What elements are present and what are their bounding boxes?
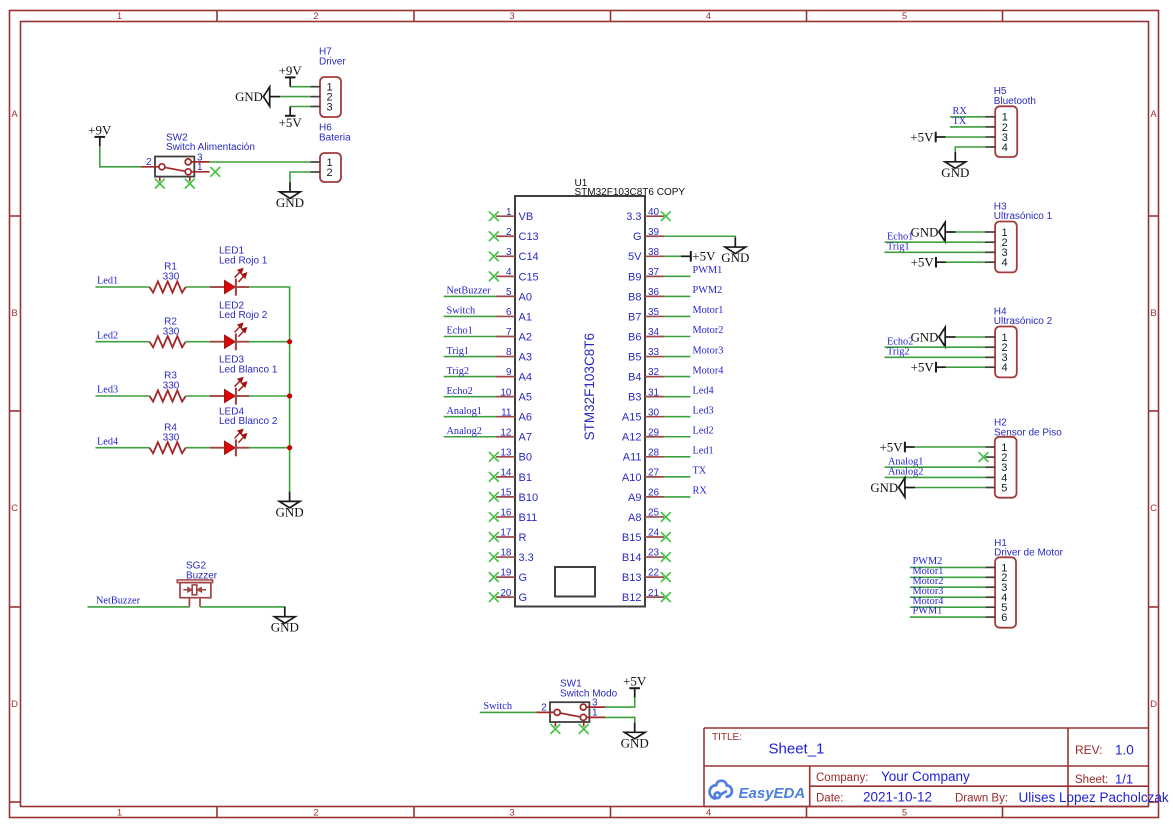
- wire Echo2 to H4 pin2: [885, 346, 986, 348]
- junction dots on LED bus: [287, 339, 292, 344]
- wire Motor3 to H1 pin4: [910, 596, 986, 598]
- wire R4 to LED4: [186, 447, 210, 449]
- wire Analog2 to H2 pin4: [885, 476, 986, 478]
- svg-text:Sheet:: Sheet:: [1075, 774, 1108, 786]
- U1 pin 27 A10: [622, 467, 664, 483]
- svg-text:+5V: +5V: [623, 674, 647, 689]
- connector H4 Ultrasónico 2: [985, 306, 1053, 377]
- svg-text:Led2: Led2: [693, 425, 714, 436]
- svg-text:Led Blanco 2: Led Blanco 2: [219, 416, 278, 427]
- connector H2 Sensor de Piso: [985, 418, 1062, 498]
- svg-text:B12: B12: [622, 592, 642, 604]
- U1 pin 9 A4: [496, 367, 532, 383]
- svg-text:GND: GND: [721, 250, 749, 265]
- wire H6 pin2 to GND: [290, 172, 311, 182]
- no-connect X U1 pin 20: [489, 592, 499, 602]
- no-connect X U1 pin 16: [489, 512, 499, 522]
- svg-text:1: 1: [117, 11, 122, 22]
- svg-text:+9V: +9V: [88, 122, 112, 137]
- svg-text:2021-10-12: 2021-10-12: [863, 790, 932, 805]
- wire Analog1 to H2 pin3: [885, 466, 986, 468]
- svg-text:3: 3: [506, 247, 512, 258]
- svg-text:A5: A5: [519, 392, 532, 404]
- wire U1 pin 27 net TX: [664, 476, 690, 478]
- wire U1 pin 31 net Led4: [664, 396, 690, 398]
- wire buzzer to GND: [200, 606, 286, 608]
- resistor R1 330: [150, 262, 186, 293]
- svg-text:5: 5: [506, 287, 512, 298]
- svg-text:NetBuzzer: NetBuzzer: [96, 595, 141, 606]
- wire H7 pin3 to +5V: [290, 106, 310, 108]
- wire R3 to LED3: [186, 395, 210, 397]
- U1 pin 40 3.3: [626, 207, 664, 223]
- wire PWM1 to H1 pin6: [910, 616, 986, 618]
- U1 pin 14 B1: [496, 467, 532, 483]
- svg-text:REV:: REV:: [1075, 743, 1103, 757]
- svg-text:Led1: Led1: [97, 276, 118, 287]
- no-connect X U1 pin 25: [661, 512, 671, 522]
- svg-text:B8: B8: [628, 291, 641, 303]
- U1 pin 35 B7: [628, 307, 664, 323]
- wire LED2 to bus: [249, 341, 290, 343]
- svg-text:Date:: Date:: [816, 793, 844, 805]
- svg-text:Ultrasónico 2: Ultrasónico 2: [994, 316, 1053, 327]
- wire Led3 to R3: [96, 395, 150, 397]
- wire U1 pin 26 net RX: [664, 496, 690, 498]
- svg-text:3.3: 3.3: [626, 211, 641, 223]
- LED LED2 Led Rojo 2: [210, 300, 268, 350]
- wire LED1 to bus: [249, 286, 290, 288]
- U1 pin 3 C14: [496, 247, 539, 263]
- wire +9V to SW2 pin2: [100, 146, 141, 167]
- svg-text:C15: C15: [519, 271, 539, 283]
- svg-text:1/1: 1/1: [1115, 772, 1133, 787]
- no-connect X U1 pin 14: [489, 472, 499, 482]
- wire Switch to SW1 pin2: [480, 711, 536, 713]
- no-connect X U1 pin 19: [489, 572, 499, 582]
- U1 pin 36 B8: [628, 287, 664, 303]
- svg-text:20: 20: [500, 588, 512, 599]
- no-connect X SW2 pin1: [210, 167, 220, 177]
- U1 pin 37 B9: [628, 267, 664, 283]
- wire NetBuzzer to buzzer: [88, 606, 190, 608]
- no-connect X U1 pin 3: [489, 251, 499, 261]
- wire U1 pin 36 net PWM2: [664, 295, 690, 297]
- svg-text:5: 5: [902, 808, 907, 819]
- svg-text:Led Rojo 1: Led Rojo 1: [219, 256, 268, 267]
- svg-text:5: 5: [902, 11, 907, 22]
- svg-text:GND: GND: [271, 620, 299, 635]
- wire U1 pin 9 net Trig2: [444, 376, 496, 378]
- svg-text:B: B: [1150, 308, 1156, 319]
- svg-text:32: 32: [648, 367, 660, 378]
- svg-text:31: 31: [648, 387, 660, 398]
- U1 pin 10 A5: [496, 387, 532, 403]
- svg-text:TITLE:: TITLE:: [712, 732, 742, 743]
- U1 pin 13 B0: [496, 447, 532, 463]
- wire U1 pin 34 net Motor2: [664, 336, 690, 338]
- connector H5 Bluetooth: [986, 86, 1036, 157]
- svg-text:Switch: Switch: [447, 306, 476, 317]
- wire LED3 to bus: [249, 395, 290, 397]
- IC U1 STM32F103C8T6: [515, 178, 685, 606]
- svg-text:13: 13: [500, 447, 512, 458]
- no-connect X H2 pin2: [979, 452, 989, 462]
- no-connect X U1 pin 13: [489, 452, 499, 462]
- svg-text:10: 10: [500, 387, 512, 398]
- wire Echo1 to H3 pin2: [885, 241, 986, 243]
- svg-text:A0: A0: [519, 291, 532, 303]
- wire U1 pin 37 net PWM1: [664, 275, 690, 277]
- svg-text:Switch Alimentación: Switch Alimentación: [166, 142, 255, 153]
- svg-text:B3: B3: [628, 392, 641, 404]
- U1 pin 7 A2: [496, 327, 532, 343]
- svg-text:Led Rojo 2: Led Rojo 2: [219, 310, 268, 321]
- U1 pin 17 R: [496, 528, 527, 544]
- svg-text:B: B: [11, 308, 17, 319]
- svg-text:Motor4: Motor4: [693, 365, 724, 376]
- U1 pin 34 B6: [628, 327, 664, 343]
- svg-text:Trig1: Trig1: [447, 346, 470, 357]
- power flag +5V (H4): [911, 360, 946, 375]
- no-connect X U1 pin 24: [661, 532, 671, 542]
- U1 pin 24 B15: [622, 528, 664, 544]
- svg-text:Trig2: Trig2: [447, 366, 470, 377]
- svg-text:Led4: Led4: [97, 436, 118, 447]
- svg-text:3: 3: [509, 11, 514, 22]
- svg-text:1: 1: [506, 207, 512, 218]
- U1 pin 19 G: [496, 568, 527, 584]
- svg-text:24: 24: [648, 528, 660, 539]
- wire H5 pin4 to GND: [955, 147, 985, 152]
- svg-text:A15: A15: [622, 412, 642, 424]
- wire Trig1 to H3 pin3: [885, 251, 986, 253]
- wire U1 pin 39 to GND: [664, 236, 735, 237]
- svg-text:GND: GND: [911, 330, 939, 344]
- svg-text:A4: A4: [519, 372, 532, 384]
- U1 pin 20 G: [496, 588, 527, 604]
- svg-text:1: 1: [592, 708, 598, 719]
- U1 pin 33 B5: [628, 347, 664, 363]
- svg-text:A8: A8: [628, 512, 641, 524]
- no-connect X SW2 bottom pins: [155, 179, 165, 189]
- no-connect X U1 pin 15: [489, 492, 499, 502]
- wire PWM2 to H1 pin1: [910, 566, 986, 568]
- svg-text:3: 3: [509, 808, 514, 819]
- svg-text:TX: TX: [693, 466, 707, 477]
- svg-text:Drawn By:: Drawn By:: [955, 793, 1008, 805]
- wire U1 pin 7 net Echo1: [444, 336, 496, 338]
- wire R1 to LED1: [186, 286, 210, 288]
- svg-text:3.3: 3.3: [519, 552, 534, 564]
- wire U1 pin 32 net Motor4: [664, 376, 690, 378]
- svg-text:2: 2: [541, 703, 547, 714]
- ground GND (H5): [941, 152, 969, 180]
- svg-text:TX: TX: [953, 116, 967, 127]
- U1 pin 38 5V: [628, 247, 664, 263]
- svg-text:17: 17: [500, 528, 512, 539]
- svg-text:25: 25: [648, 508, 660, 519]
- wire R2 to LED2: [186, 341, 210, 343]
- resistor R2 330: [150, 316, 186, 347]
- U1 pin 30 A15: [622, 407, 664, 423]
- svg-text:B13: B13: [622, 572, 642, 584]
- wire Motor4 to H1 pin5: [910, 606, 986, 608]
- no-connect X U1 pin 23: [661, 552, 671, 562]
- svg-text:5V: 5V: [628, 251, 642, 263]
- svg-text:Analog1: Analog1: [447, 406, 482, 417]
- wire U1 pin 33 net Motor3: [664, 356, 690, 358]
- LED LED4 Led Blanco 2: [210, 406, 278, 456]
- svg-text:Echo2: Echo2: [447, 386, 473, 397]
- svg-text:21: 21: [648, 588, 660, 599]
- svg-text:B5: B5: [628, 351, 641, 363]
- svg-text:A9: A9: [628, 492, 641, 504]
- wire U1 pin 8 net Trig1: [444, 356, 496, 358]
- svg-text:B15: B15: [622, 532, 642, 544]
- wire U1 pin 6 net Switch: [444, 315, 496, 317]
- switch SW1 Switch Modo: [536, 679, 617, 727]
- U1 pin 21 B12: [622, 588, 664, 604]
- U1 pin 15 B10: [496, 488, 538, 504]
- wire +5V to H3 pin4: [946, 261, 985, 263]
- svg-text:B4: B4: [628, 372, 641, 384]
- wire +5V to H5 pin3: [946, 136, 986, 138]
- ground GND (H3): [911, 222, 956, 241]
- svg-text:6: 6: [506, 307, 512, 318]
- LED LED1 Led Rojo 1: [210, 246, 268, 296]
- svg-text:G: G: [633, 231, 642, 243]
- wire H7 pin1 to +9V: [290, 86, 310, 88]
- svg-text:B1: B1: [519, 472, 532, 484]
- svg-text:18: 18: [500, 548, 512, 559]
- svg-text:3: 3: [327, 101, 333, 113]
- svg-text:Company:: Company:: [816, 772, 868, 784]
- wire H7 pin2 to GND: [280, 96, 311, 98]
- svg-text:4: 4: [1002, 142, 1008, 154]
- U1 pin 11 A6: [496, 407, 532, 423]
- resistor R4 330: [150, 422, 186, 453]
- svg-text:26: 26: [648, 488, 660, 499]
- svg-text:A: A: [1150, 109, 1157, 120]
- connector H7 Driver: [311, 47, 347, 117]
- svg-text:A1: A1: [519, 311, 532, 323]
- svg-text:Led1: Led1: [693, 446, 714, 457]
- power flag +9V (SW2): [88, 122, 112, 146]
- no-connect X U1 pin 4: [489, 271, 499, 281]
- svg-text:+5V: +5V: [879, 439, 903, 454]
- switch SW2 Switch Alimentacion: [141, 132, 255, 181]
- power flag +9V (H7): [279, 63, 303, 87]
- no-connect X U1 pin 22: [661, 572, 671, 582]
- svg-text:+9V: +9V: [279, 63, 303, 78]
- wire U1 pin 12 net Analog2: [444, 436, 496, 438]
- wire +5V to H2 pin1: [915, 446, 986, 448]
- U1 pin 2 C13: [496, 227, 539, 243]
- svg-text:+5V: +5V: [910, 129, 934, 144]
- connector H1 Driver de Motor: [985, 538, 1063, 628]
- svg-text:A12: A12: [622, 432, 642, 444]
- svg-text:Led3: Led3: [97, 385, 118, 396]
- svg-text:GND: GND: [911, 225, 939, 239]
- svg-text:38: 38: [648, 247, 660, 258]
- svg-text:1.0: 1.0: [1115, 743, 1134, 758]
- svg-text:Bateria: Bateria: [319, 132, 351, 143]
- U1 pin 26 A9: [628, 488, 664, 504]
- ground GND (U1 pin 39): [721, 237, 749, 265]
- svg-text:A: A: [11, 109, 18, 120]
- connector H6 Bateria: [311, 123, 352, 182]
- svg-text:Switch Modo: Switch Modo: [560, 688, 618, 699]
- U1 pin 25 A8: [628, 508, 664, 524]
- svg-text:Bluetooth: Bluetooth: [994, 96, 1036, 107]
- power flag +5V (H5): [910, 129, 945, 144]
- svg-text:Your Company: Your Company: [881, 769, 970, 784]
- svg-text:+5V: +5V: [692, 249, 716, 264]
- LED LED3 Led Blanco 1: [210, 355, 278, 405]
- wire U1 pin 28 net Led1: [664, 456, 690, 458]
- wire H4 pin1 to GND: [956, 336, 986, 338]
- no-connect X U1 pin 17: [489, 532, 499, 542]
- wire U1 pin 10 net Echo2: [444, 396, 496, 398]
- svg-text:RX: RX: [693, 486, 708, 497]
- svg-text:36: 36: [648, 287, 660, 298]
- svg-text:4: 4: [506, 267, 512, 278]
- svg-text:22: 22: [648, 568, 660, 579]
- svg-text:Sheet_1: Sheet_1: [769, 741, 825, 758]
- svg-text:2: 2: [327, 167, 333, 179]
- svg-text:Motor1: Motor1: [693, 305, 724, 316]
- wire SW1 pin3 to +5V: [605, 698, 635, 708]
- svg-text:A10: A10: [622, 472, 642, 484]
- wire U1 pin 35 net Motor1: [664, 315, 690, 317]
- svg-text:PWM1: PWM1: [913, 606, 943, 617]
- no-connect X U1 pin 18: [489, 552, 499, 562]
- wire H2 pin5 to GND: [915, 487, 985, 489]
- svg-text:A3: A3: [519, 351, 532, 363]
- wire H6 pin1 to SW2 pin3: [210, 161, 311, 163]
- U1 pin 8 A3: [496, 347, 532, 363]
- U1 pin 32 B4: [628, 367, 664, 383]
- U1 pin 28 A11: [623, 447, 664, 463]
- ground GND (SW1): [621, 723, 649, 751]
- wire Led1 to R1: [96, 286, 150, 288]
- svg-text:23: 23: [648, 548, 660, 559]
- U1 pin 1 VB: [496, 207, 533, 223]
- U1 pin 16 B11: [496, 508, 537, 524]
- svg-text:8: 8: [506, 347, 512, 358]
- ground GND (LED bus): [276, 492, 304, 520]
- svg-text:11: 11: [501, 407, 512, 418]
- wire Led4 to R4: [96, 447, 150, 449]
- svg-text:B10: B10: [519, 492, 539, 504]
- wire LED4 to bus: [249, 447, 290, 449]
- svg-text:2: 2: [313, 808, 318, 819]
- svg-text:GND: GND: [235, 90, 263, 104]
- svg-text:7: 7: [506, 327, 512, 338]
- svg-text:+5V: +5V: [911, 360, 935, 375]
- svg-text:Motor2: Motor2: [693, 325, 724, 336]
- svg-text:Trig2: Trig2: [887, 346, 910, 357]
- svg-text:C: C: [1150, 503, 1157, 514]
- wire U1 pin 38 to +5V: [664, 255, 681, 257]
- svg-text:C13: C13: [519, 231, 539, 243]
- U1 pin 4 C15: [496, 267, 539, 283]
- svg-text:34: 34: [648, 327, 660, 338]
- svg-text:Motor3: Motor3: [693, 345, 724, 356]
- svg-text:1: 1: [197, 162, 203, 173]
- wire U1 pin 5 net NetBuzzer: [444, 295, 496, 297]
- svg-text:Trig1: Trig1: [887, 241, 910, 252]
- svg-text:VB: VB: [519, 211, 534, 223]
- svg-text:A11: A11: [623, 452, 642, 464]
- svg-text:Switch: Switch: [483, 701, 512, 712]
- svg-text:39: 39: [648, 227, 660, 238]
- svg-text:14: 14: [500, 467, 512, 478]
- svg-text:35: 35: [648, 307, 660, 318]
- svg-text:4: 4: [1002, 257, 1008, 269]
- svg-text:B14: B14: [622, 552, 642, 564]
- ground GND (H6): [276, 182, 304, 210]
- wire SW1 pin1 to GND: [605, 717, 635, 722]
- resistor R3 330: [150, 371, 186, 402]
- svg-text:B7: B7: [628, 311, 641, 323]
- svg-text:2: 2: [146, 157, 152, 168]
- connector H3 Ultrasónico 1: [985, 201, 1053, 272]
- svg-text:Led2: Led2: [97, 330, 118, 341]
- U1 pin 12 A7: [496, 427, 532, 443]
- power flag +5V (H2): [879, 439, 914, 454]
- svg-text:GND: GND: [941, 165, 969, 180]
- svg-text:33: 33: [648, 347, 660, 358]
- svg-text:9: 9: [506, 367, 512, 378]
- no-connect X U1 pin 21: [661, 592, 671, 602]
- svg-text:D: D: [11, 699, 18, 710]
- svg-text:STM32F103C8T6: STM32F103C8T6: [582, 333, 597, 440]
- U1 pin 5 A0: [496, 287, 532, 303]
- svg-text:6: 6: [1001, 612, 1007, 624]
- svg-text:NetBuzzer: NetBuzzer: [447, 286, 492, 297]
- ground GND (H7 pin2): [235, 87, 280, 106]
- svg-text:GND: GND: [621, 735, 649, 750]
- power flag +5V (H7): [279, 107, 303, 131]
- svg-text:5: 5: [1001, 482, 1007, 494]
- svg-text:PWM1: PWM1: [693, 265, 723, 276]
- no-connect X SW1 bottom pins: [551, 724, 561, 734]
- svg-text:12: 12: [500, 427, 512, 438]
- svg-text:1: 1: [117, 808, 122, 819]
- svg-text:2: 2: [313, 11, 318, 22]
- buzzer SG2: [177, 561, 218, 607]
- svg-text:GND: GND: [276, 195, 304, 210]
- svg-text:G: G: [519, 572, 528, 584]
- wire Led2 to R2: [96, 341, 150, 343]
- svg-text:G: G: [519, 592, 528, 604]
- svg-text:29: 29: [648, 427, 660, 438]
- U1 pin 6 A1: [496, 307, 532, 323]
- no-connect X U1 pin 1: [489, 211, 499, 221]
- svg-text:+5V: +5V: [911, 255, 935, 270]
- ground GND (H2): [870, 478, 915, 497]
- power flag +5V (H3): [911, 255, 946, 270]
- svg-text:PWM2: PWM2: [693, 285, 723, 296]
- svg-text:B9: B9: [628, 271, 641, 283]
- svg-text:B11: B11: [519, 512, 538, 524]
- svg-text:Echo1: Echo1: [447, 326, 473, 337]
- svg-text:Analog2: Analog2: [447, 426, 482, 437]
- svg-text:Led Blanco 1: Led Blanco 1: [219, 365, 278, 376]
- U1 pin 31 B3: [628, 387, 664, 403]
